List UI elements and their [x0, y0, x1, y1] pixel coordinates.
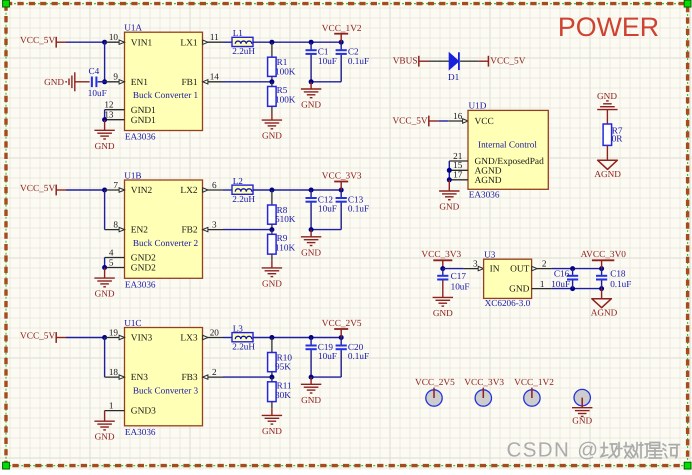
resistor R10 95K	[268, 338, 293, 378]
pin 18 EN3	[105, 367, 125, 379]
svg-text:VCC_1V2: VCC_1V2	[514, 378, 554, 388]
svg-text:EA3036: EA3036	[125, 427, 156, 437]
junction at divider top	[269, 40, 274, 45]
svg-text:GND: GND	[95, 432, 115, 442]
svg-text:L3: L3	[233, 323, 244, 333]
junction C18 top	[599, 266, 604, 271]
svg-text:Buck Converter 3: Buck Converter 3	[133, 385, 199, 395]
svg-text:C16: C16	[554, 269, 570, 279]
junction at ground pins	[102, 117, 107, 122]
wire capacitor bottoms	[311, 376, 341, 378]
svg-text:VCC_2V5: VCC_2V5	[415, 378, 455, 388]
junction C16 bottom	[570, 286, 575, 291]
svg-text:EA3036: EA3036	[125, 280, 156, 290]
svg-text:EA3036: EA3036	[469, 190, 500, 200]
junction U1D gnd 2	[447, 177, 452, 182]
junction at bulk cap	[309, 188, 314, 193]
svg-text:U1A: U1A	[124, 23, 142, 33]
capacitor C1 10uF	[306, 42, 337, 82]
svg-text:FB2: FB2	[181, 226, 197, 236]
title POWER	[558, 12, 659, 42]
ground GND (U1D)	[439, 180, 460, 212]
pin 20 LX3	[203, 327, 224, 339]
power port VCC_2V5	[322, 319, 362, 337]
junction at VIN1	[102, 40, 107, 45]
junction at cap ground	[309, 375, 314, 380]
pin 3 IN	[464, 259, 484, 271]
svg-text:9: 9	[113, 72, 118, 82]
wire VIN2 junction down to EN2	[104, 190, 106, 230]
pin 14 FB1	[203, 72, 224, 84]
pin 21 GND/ExposedPad	[449, 151, 468, 161]
svg-text:U1D: U1D	[469, 101, 487, 111]
capacitor C17 10uF	[437, 269, 469, 292]
svg-text:Buck Converter 2: Buck Converter 2	[133, 238, 199, 248]
ground GND (below U1A ground pins)	[94, 120, 115, 151]
svg-text:10uF: 10uF	[551, 279, 570, 289]
test point VCC_1V2	[514, 378, 554, 406]
pin 16 VCC	[448, 111, 468, 123]
ground GND (below C12/C13)	[301, 230, 322, 258]
svg-text:LX3: LX3	[180, 334, 197, 344]
wire L2 to VCC_3V3	[253, 189, 341, 191]
inductor L3 2.2uH	[223, 323, 255, 351]
wire VCC_5V to U1C VIN3	[66, 337, 105, 339]
resistor R1 100K	[268, 42, 296, 82]
svg-text:14: 14	[210, 72, 220, 82]
svg-text:EN1: EN1	[131, 78, 148, 88]
junction U1D gnd 1	[447, 168, 452, 173]
junction at power stem	[339, 188, 344, 193]
svg-text:VCC_2V5: VCC_2V5	[322, 319, 362, 329]
IC U3 XC6206-3.0 (LDO)	[484, 250, 532, 308]
svg-text:2.2uH: 2.2uH	[232, 194, 255, 204]
wire VBUS to D1 anode	[429, 60, 449, 62]
svg-text:VCC_5V: VCC_5V	[20, 332, 55, 342]
svg-text:FB3: FB3	[181, 373, 197, 383]
svg-text:R11: R11	[277, 380, 292, 390]
svg-text:16: 16	[453, 111, 463, 121]
svg-text:EN3: EN3	[131, 373, 148, 383]
pin 2 OUT	[532, 259, 552, 271]
ground GND (below C1/C2)	[301, 82, 322, 110]
test point VCC_3V3	[464, 378, 504, 406]
junction at ground pins	[102, 265, 107, 270]
junction C16 top	[570, 266, 575, 271]
capacitor C13 0.1uF	[336, 190, 370, 230]
svg-text:U1C: U1C	[124, 318, 141, 328]
wire L1 to VCC_1V2	[253, 41, 341, 43]
ground AGND (below C18)	[591, 289, 618, 318]
svg-text:GND: GND	[597, 91, 617, 101]
svg-text:510K: 510K	[275, 214, 296, 224]
svg-text:4: 4	[109, 247, 114, 257]
pin 7 VIN2	[105, 180, 125, 192]
svg-text:GND: GND	[95, 141, 115, 151]
svg-text:11: 11	[210, 32, 219, 42]
svg-text:R5: R5	[277, 85, 288, 95]
test point GND	[572, 389, 593, 425]
svg-text:100K: 100K	[275, 95, 296, 105]
svg-text:GND: GND	[509, 285, 530, 295]
svg-text:L2: L2	[233, 176, 244, 186]
svg-text:GND: GND	[262, 426, 282, 436]
svg-text:Internal Control: Internal Control	[478, 140, 537, 150]
pin 15 AGND	[449, 160, 468, 170]
svg-text:VCC_1V2: VCC_1V2	[322, 24, 362, 34]
wire VCC_5V to U1D VCC	[439, 120, 449, 122]
IC U1A EA3036 (buck converter)	[124, 23, 202, 142]
svg-text:8: 8	[113, 220, 118, 230]
pin 2 FB3	[203, 367, 224, 379]
junction at divider top	[269, 335, 274, 340]
junction at divider top	[269, 188, 274, 193]
wire L3 to VCC_2V5	[253, 337, 341, 339]
svg-text:17: 17	[453, 170, 463, 180]
inductor L2 2.2uH	[223, 176, 255, 204]
pin 1 GND	[532, 279, 552, 289]
wire U1D ground pins	[448, 161, 450, 180]
junction at divider mid	[269, 79, 274, 84]
capacitor C12 10uF	[306, 190, 337, 230]
pin 11 LX1	[203, 32, 224, 44]
svg-text:VCC_5V: VCC_5V	[20, 184, 55, 194]
wire FB1 to divider	[223, 81, 272, 83]
svg-text:LX1: LX1	[180, 38, 197, 48]
pin 5 GND2	[105, 257, 125, 267]
capacitor C16 10uF	[551, 269, 578, 289]
capacitor C2 0.1uF	[336, 42, 370, 82]
wire ground pins of U1A	[104, 110, 106, 120]
svg-text:VBUS: VBUS	[393, 56, 418, 66]
svg-text:CSDN @: CSDN @	[507, 439, 600, 462]
svg-text:VCC_5V: VCC_5V	[490, 56, 525, 66]
test point VCC_2V5	[415, 378, 455, 406]
svg-text:2: 2	[212, 367, 217, 377]
wire VIN1 junction down to EN1	[104, 42, 106, 82]
svg-text:15: 15	[453, 160, 463, 170]
svg-text:0.1uF: 0.1uF	[348, 56, 369, 66]
power port VCC_3V3 (U3 input)	[421, 250, 461, 268]
ground GND (below U1B ground pins)	[94, 268, 115, 299]
svg-text:R9: R9	[277, 233, 288, 243]
svg-text:GND3: GND3	[131, 407, 156, 417]
svg-text:GND1: GND1	[131, 116, 156, 126]
power port VCC_1V2	[322, 24, 362, 42]
junction at bulk cap	[309, 40, 314, 45]
svg-text:C18: C18	[610, 269, 626, 279]
pin 3 FB2	[203, 220, 224, 232]
ground GND (below R11)	[262, 408, 283, 436]
svg-text:10uF: 10uF	[318, 56, 337, 66]
pin 13 GND1	[104, 110, 124, 120]
svg-text:OUT: OUT	[510, 265, 530, 275]
ground GND (below R9)	[262, 261, 283, 289]
ground GND (left of C4)	[44, 72, 90, 91]
svg-text:C17: C17	[451, 271, 467, 281]
svg-text:1: 1	[540, 279, 545, 289]
svg-text:GND: GND	[301, 247, 321, 257]
pin 10 VIN1	[105, 32, 125, 44]
svg-text:2: 2	[542, 259, 547, 269]
wire VIN3 junction down to EN3	[104, 338, 106, 378]
ground GND (below R5)	[262, 113, 283, 141]
pin 4 GND2	[105, 247, 125, 257]
power port VCC_5V (U1C input)	[20, 332, 66, 343]
junction at VIN2	[102, 188, 107, 193]
svg-text:C4: C4	[89, 66, 100, 76]
svg-text:VCC: VCC	[475, 117, 494, 127]
junction at VIN3	[102, 335, 107, 340]
svg-text:GND: GND	[301, 100, 321, 110]
capacitor C20 0.1uF	[336, 338, 370, 378]
wire ground pins of U1B	[104, 258, 106, 268]
pin 1 GND3	[105, 401, 125, 411]
capacitor C4 10uF	[88, 66, 107, 98]
resistor R11 30K	[268, 377, 292, 408]
svg-text:19: 19	[109, 327, 119, 337]
svg-text:AGND: AGND	[594, 169, 621, 179]
svg-text:10uF: 10uF	[318, 204, 337, 214]
capacitor C19 10uF	[306, 338, 337, 378]
pin 17 AGND	[449, 170, 468, 180]
junction at EN1 / C4	[102, 79, 107, 84]
pin 9 EN1	[105, 72, 125, 84]
capacitor C18 0.1uF	[596, 269, 631, 289]
svg-text:7: 7	[113, 180, 118, 190]
wire capacitor bottoms	[311, 229, 341, 231]
svg-text:GND1: GND1	[131, 106, 156, 116]
svg-text:20: 20	[210, 327, 220, 337]
svg-text:EN2: EN2	[131, 226, 148, 236]
svg-text:AGND: AGND	[475, 166, 502, 176]
svg-text:VCC_3V3: VCC_3V3	[421, 250, 461, 260]
svg-text:2.2uH: 2.2uH	[232, 46, 255, 56]
svg-text:U3: U3	[484, 250, 496, 260]
svg-text:30K: 30K	[275, 390, 291, 400]
svg-text:10uF: 10uF	[451, 282, 470, 292]
svg-text:POWER: POWER	[558, 12, 659, 42]
junction at cap ground	[309, 227, 314, 232]
svg-text:AVCC_3V0: AVCC_3V0	[581, 250, 627, 260]
svg-text:VCC_3V3: VCC_3V3	[322, 172, 362, 182]
svg-text:0.1uF: 0.1uF	[348, 204, 369, 214]
svg-text:VIN3: VIN3	[131, 334, 153, 344]
svg-text:6: 6	[212, 180, 217, 190]
diode D1	[448, 52, 460, 82]
svg-text:95K: 95K	[275, 362, 291, 372]
svg-text:0R: 0R	[612, 133, 624, 143]
power port VCC_5V (U1B input)	[20, 184, 66, 195]
svg-text:IN: IN	[490, 265, 500, 275]
svg-text:3: 3	[212, 220, 217, 230]
svg-text:0.1uF: 0.1uF	[348, 351, 369, 361]
pin 6 LX2	[203, 180, 224, 192]
ground GND (above R7)	[597, 91, 618, 124]
svg-text:GND: GND	[433, 308, 453, 318]
svg-text:5: 5	[109, 257, 114, 267]
svg-text:L1: L1	[233, 28, 244, 38]
svg-text:U1B: U1B	[124, 170, 141, 180]
wire FB2 to divider	[223, 229, 272, 231]
svg-text:AGND: AGND	[591, 308, 618, 318]
wire FB3 to divider	[223, 376, 272, 378]
svg-text:GND: GND	[262, 131, 282, 141]
wire D1 cathode to VCC_5V	[460, 60, 479, 62]
svg-text:3: 3	[473, 259, 478, 269]
junction at power stem	[339, 40, 344, 45]
junction C18 bottom	[599, 286, 604, 291]
svg-text:GND: GND	[439, 202, 459, 212]
svg-text:110K: 110K	[275, 243, 295, 253]
resistor R7 0R	[603, 124, 623, 160]
svg-text:VCC_3V3: VCC_3V3	[464, 378, 504, 388]
svg-text:Buck Converter 1: Buck Converter 1	[133, 90, 199, 100]
pin 19 VIN3	[105, 327, 125, 339]
power port AVCC_3V0	[581, 250, 627, 268]
watermark CSDN	[507, 439, 680, 462]
wire VCC_5V to U1A VIN1	[66, 41, 105, 43]
svg-text:XC6206-3.0: XC6206-3.0	[485, 298, 531, 308]
resistor R9 110K	[268, 230, 296, 261]
svg-text:GND: GND	[95, 289, 115, 299]
svg-text:VIN2: VIN2	[131, 186, 153, 196]
inductor L1 2.2uH	[223, 28, 255, 56]
power port VCC_5V (from VBUS)	[479, 56, 526, 67]
power port VCC_3V3	[322, 172, 362, 190]
power port VCC_5V (U1D)	[392, 116, 438, 127]
svg-text:12: 12	[104, 100, 114, 110]
svg-text:VIN1: VIN1	[131, 38, 153, 48]
svg-text:FB1: FB1	[181, 78, 197, 88]
svg-text:GND: GND	[572, 416, 592, 426]
svg-text:GND2: GND2	[131, 254, 156, 264]
svg-text:EA3036: EA3036	[125, 132, 156, 142]
svg-text:VCC_5V: VCC_5V	[392, 116, 427, 126]
ground AGND (below R7)	[594, 160, 621, 179]
junction at power stem	[339, 335, 344, 340]
svg-text:GND: GND	[44, 77, 64, 87]
svg-text:2.2uH: 2.2uH	[232, 342, 255, 352]
ground GND (below C17)	[433, 281, 454, 318]
pin 8 EN2	[105, 220, 125, 232]
wire capacitor bottoms	[311, 81, 341, 83]
svg-text:LX2: LX2	[180, 186, 197, 196]
svg-text:0.1uF: 0.1uF	[610, 279, 631, 289]
pin 12 GND1	[104, 100, 124, 110]
svg-text:10uF: 10uF	[318, 351, 337, 361]
wire GND pin to AGND	[552, 288, 602, 290]
resistor R8 510K	[268, 190, 296, 230]
IC U1B EA3036 (buck converter)	[124, 170, 202, 289]
svg-text:AGND: AGND	[475, 176, 502, 186]
svg-text:1: 1	[109, 401, 114, 411]
junction at divider mid	[269, 227, 274, 232]
svg-text:10: 10	[109, 32, 119, 42]
svg-text:GND2: GND2	[131, 264, 156, 274]
wire OUT to AVCC_3V0	[552, 268, 602, 270]
svg-text:VCC_5V: VCC_5V	[20, 36, 55, 46]
svg-text:GND: GND	[262, 278, 282, 288]
junction at cap ground	[309, 79, 314, 84]
power port VBUS	[393, 56, 429, 67]
svg-text:GND: GND	[301, 395, 321, 405]
IC U1C EA3036 (buck converter)	[124, 318, 202, 437]
svg-text:100K: 100K	[275, 66, 296, 76]
svg-text:10uF: 10uF	[88, 88, 107, 98]
wire VCC_5V to U1B VIN2	[66, 189, 105, 191]
power port VCC_5V (U1A input)	[20, 36, 66, 47]
wire VCC_3V3 to U3 IN	[443, 268, 464, 270]
svg-text:D1: D1	[448, 72, 460, 82]
svg-text:18: 18	[109, 367, 119, 377]
ground GND (below U1C ground pins)	[94, 411, 115, 442]
junction at C17	[440, 266, 445, 271]
junction at bulk cap	[309, 335, 314, 340]
junction at divider mid	[269, 375, 274, 380]
IC U1D EA3036 (internal control)	[468, 101, 548, 200]
ground GND (below C19/C20)	[301, 377, 322, 405]
resistor R5 100K	[268, 82, 296, 113]
